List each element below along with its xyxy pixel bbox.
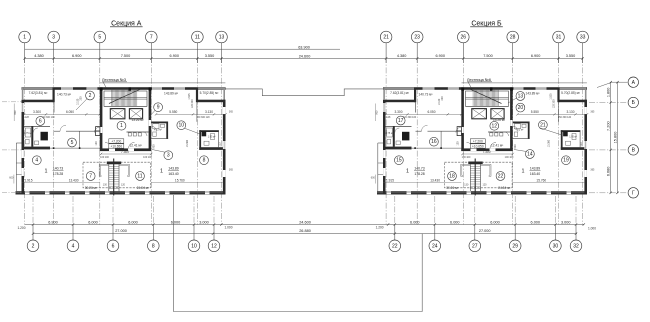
room circle 12 bbox=[490, 121, 499, 130]
grid bubble 22 bbox=[389, 240, 401, 252]
parapet step line between sections bbox=[226, 89, 384, 96]
svg-text:9: 9 bbox=[157, 105, 160, 111]
svg-text:3: 3 bbox=[167, 153, 170, 159]
grid bubble 31 bbox=[553, 31, 565, 43]
grid bubble 24 bbox=[429, 240, 441, 252]
svg-text:63.900: 63.900 bbox=[298, 45, 310, 49]
svg-text:6: 6 bbox=[39, 119, 42, 125]
svg-text:11: 11 bbox=[137, 174, 142, 180]
grid bubble 6 bbox=[107, 240, 119, 252]
room circles section A bbox=[32, 91, 208, 180]
svg-text:3.550: 3.550 bbox=[205, 54, 215, 58]
room circle 10 bbox=[177, 121, 186, 130]
room circle 8 bbox=[200, 156, 209, 165]
svg-text:18: 18 bbox=[449, 174, 455, 180]
svg-text:17: 17 bbox=[398, 118, 404, 124]
svg-text:21: 21 bbox=[540, 122, 546, 128]
svg-text:7: 7 bbox=[89, 174, 92, 180]
room circle 6 bbox=[36, 117, 45, 126]
svg-text:12: 12 bbox=[492, 123, 498, 129]
stair diagonal section B (mirrored) bbox=[471, 89, 502, 103]
svg-text:1.200: 1.200 bbox=[18, 226, 26, 230]
grid bubble 32 bbox=[570, 240, 582, 252]
room circles section B bbox=[395, 92, 571, 181]
grid bubble 28 bbox=[507, 31, 519, 43]
svg-text:19: 19 bbox=[563, 158, 569, 164]
svg-text:Лестница №6: Лестница №6 bbox=[467, 78, 491, 82]
svg-text:24.600: 24.600 bbox=[299, 55, 311, 59]
letter grid row lines bbox=[589, 103, 628, 193]
svg-text:8: 8 bbox=[203, 158, 206, 164]
svg-text:3: 3 bbox=[52, 35, 55, 41]
svg-text:1.200: 1.200 bbox=[376, 226, 384, 230]
svg-text:Секция А: Секция А bbox=[111, 20, 142, 27]
leader line circle 21 bbox=[540, 128, 563, 135]
room circle 21 bbox=[539, 120, 548, 129]
svg-text:1: 1 bbox=[23, 35, 26, 41]
svg-text:6.000: 6.000 bbox=[450, 221, 460, 225]
stair label section A bbox=[102, 78, 127, 88]
room circle 17 bbox=[396, 116, 405, 125]
svg-text:10: 10 bbox=[191, 244, 197, 250]
room circle 14 bbox=[526, 150, 535, 159]
svg-text:21: 21 bbox=[383, 35, 389, 41]
svg-text:1.000: 1.000 bbox=[225, 226, 233, 230]
svg-text:12: 12 bbox=[211, 244, 217, 250]
grid bubble 5 bbox=[94, 31, 106, 43]
svg-text:5: 5 bbox=[98, 35, 101, 41]
room circle 2 bbox=[86, 91, 95, 100]
vertical grid lines section B (dash-dot) bbox=[386, 57, 582, 225]
grid bubble Г bbox=[628, 188, 638, 198]
top dimension line row 2 bbox=[23, 54, 583, 60]
svg-text:10: 10 bbox=[179, 123, 185, 129]
grid bubble А bbox=[628, 77, 638, 87]
letter row extensions left margin bbox=[2, 102, 22, 193]
svg-text:6.000: 6.000 bbox=[171, 221, 181, 225]
room circle 11 bbox=[136, 172, 145, 181]
svg-text:27: 27 bbox=[472, 244, 478, 250]
room circle 18 bbox=[448, 172, 457, 181]
svg-text:3.000: 3.000 bbox=[561, 221, 571, 225]
svg-text:20: 20 bbox=[518, 105, 524, 111]
room circle 15 bbox=[395, 156, 404, 165]
svg-text:6.000: 6.000 bbox=[128, 221, 138, 225]
top dimension line 63.900 bbox=[25, 45, 340, 49]
room circle 4 bbox=[32, 156, 41, 165]
right margin vertical dim line 1 bbox=[606, 81, 612, 194]
room circle 3 bbox=[164, 151, 173, 160]
svg-text:Г: Г bbox=[632, 191, 635, 197]
svg-text:6.900: 6.900 bbox=[48, 221, 58, 225]
grid bubble 11 bbox=[192, 31, 204, 43]
svg-text:6.000: 6.000 bbox=[531, 221, 541, 225]
leader line circle 9 bbox=[149, 110, 155, 117]
svg-text:7.500: 7.500 bbox=[483, 54, 493, 58]
stair diagonal section A bbox=[109, 89, 140, 103]
svg-text:6.900: 6.900 bbox=[435, 54, 445, 58]
svg-text:4.380: 4.380 bbox=[34, 54, 44, 58]
grid bubble 29 bbox=[509, 240, 521, 252]
leader line circle 10 bbox=[185, 128, 201, 134]
svg-text:28: 28 bbox=[510, 35, 516, 41]
lower outline rectangle bbox=[174, 195, 423, 312]
room circle 20 bbox=[516, 103, 525, 112]
svg-text:13: 13 bbox=[219, 35, 225, 41]
room circle 9 bbox=[154, 103, 163, 112]
grid bubble 4 bbox=[67, 240, 79, 252]
svg-text:4: 4 bbox=[35, 158, 38, 164]
svg-text:15: 15 bbox=[396, 158, 402, 164]
svg-text:31: 31 bbox=[556, 35, 562, 41]
bottom grid lines section B bbox=[395, 196, 576, 225]
room circle 7 bbox=[86, 172, 95, 181]
grid bubble 1 bbox=[19, 31, 31, 43]
svg-text:7.500: 7.500 bbox=[121, 54, 131, 58]
svg-text:6.900: 6.900 bbox=[531, 54, 541, 58]
right margin vertical dim line 2 bbox=[613, 81, 618, 194]
stair label section B bbox=[467, 78, 492, 88]
svg-text:26.880: 26.880 bbox=[299, 229, 311, 233]
grid bubble 3 bbox=[48, 31, 60, 43]
room circle 22 bbox=[496, 172, 505, 181]
bottom bubble stubs bbox=[33, 225, 576, 241]
grid bubble В bbox=[628, 145, 638, 155]
svg-text:22: 22 bbox=[498, 174, 504, 180]
svg-text:6.900: 6.900 bbox=[170, 54, 180, 58]
grid bubble 26 bbox=[458, 31, 470, 43]
svg-text:26: 26 bbox=[461, 35, 467, 41]
grid bubble 21 bbox=[380, 31, 392, 43]
grid bubble 2 bbox=[27, 240, 39, 252]
svg-text:Секция Б: Секция Б bbox=[471, 20, 502, 27]
svg-text:27.000: 27.000 bbox=[479, 229, 491, 233]
grid bubble 7 bbox=[146, 31, 158, 43]
svg-text:1.800: 1.800 bbox=[606, 88, 610, 98]
svg-text:27.000: 27.000 bbox=[115, 229, 127, 233]
svg-text:4.380: 4.380 bbox=[397, 54, 407, 58]
grid bubble 12 bbox=[208, 240, 220, 252]
svg-text:32: 32 bbox=[573, 244, 579, 250]
svg-text:24: 24 bbox=[432, 244, 438, 250]
svg-text:5: 5 bbox=[71, 140, 74, 146]
room circle 5 bbox=[68, 138, 77, 147]
grid bubble 23 bbox=[411, 31, 423, 43]
room circle 16 bbox=[430, 137, 439, 146]
svg-text:1: 1 bbox=[120, 123, 123, 129]
svg-text:Лестница №3: Лестница №3 bbox=[102, 78, 126, 82]
svg-text:24.600: 24.600 bbox=[299, 221, 311, 225]
svg-text:14: 14 bbox=[527, 152, 533, 158]
section B floor plan (reuse) bbox=[371, 83, 595, 196]
svg-text:33: 33 bbox=[580, 35, 586, 41]
svg-text:3.550: 3.550 bbox=[566, 54, 576, 58]
bottom dimension row 1 bbox=[18, 221, 597, 231]
row A leader bbox=[597, 82, 628, 87]
room circle 19 bbox=[562, 156, 571, 165]
leader line circle 14 bbox=[514, 150, 527, 152]
svg-text:4: 4 bbox=[72, 244, 75, 250]
grid bubble 30 bbox=[550, 240, 562, 252]
top grid bubble stubs bbox=[25, 42, 583, 63]
grid bubble 13 bbox=[216, 31, 228, 43]
svg-text:15.800: 15.800 bbox=[613, 132, 617, 144]
svg-text:8: 8 bbox=[152, 244, 155, 250]
section A floor plan bbox=[9, 83, 233, 196]
svg-text:2: 2 bbox=[32, 244, 35, 250]
svg-text:30: 30 bbox=[553, 244, 559, 250]
svg-text:7.200: 7.200 bbox=[606, 121, 610, 131]
svg-text:23: 23 bbox=[414, 35, 420, 41]
svg-text:6.900: 6.900 bbox=[72, 54, 82, 58]
svg-text:6.000: 6.000 bbox=[88, 221, 98, 225]
svg-text:1.000: 1.000 bbox=[588, 226, 596, 230]
svg-text:6.680: 6.680 bbox=[606, 167, 610, 177]
leader line circle 3 bbox=[152, 150, 165, 153]
leader line circle 13 bbox=[508, 98, 517, 103]
svg-text:29: 29 bbox=[512, 244, 518, 250]
room circle 13 bbox=[516, 92, 525, 101]
svg-text:3.000: 3.000 bbox=[199, 221, 209, 225]
vertical grid lines section A (dash-dot) bbox=[25, 57, 222, 225]
title Секция Б bbox=[470, 20, 503, 27]
grid bubble 27 bbox=[469, 240, 481, 252]
grid bubble 10 bbox=[188, 240, 200, 252]
bottom dimension row 2 bbox=[32, 229, 577, 235]
svg-text:7: 7 bbox=[150, 35, 153, 41]
svg-text:16: 16 bbox=[431, 139, 437, 145]
svg-text:13: 13 bbox=[518, 94, 524, 100]
svg-text:22: 22 bbox=[392, 244, 398, 250]
grid bubble 8 bbox=[148, 240, 160, 252]
svg-text:6.000: 6.000 bbox=[490, 221, 500, 225]
svg-text:6: 6 bbox=[112, 244, 115, 250]
room circle 1 bbox=[117, 121, 126, 130]
leader line circle 2 bbox=[76, 99, 87, 110]
svg-text:6.000: 6.000 bbox=[410, 221, 420, 225]
title Секция А bbox=[110, 20, 143, 27]
svg-text:11: 11 bbox=[195, 35, 200, 41]
grid bubble Б bbox=[628, 97, 638, 107]
grid bubble 33 bbox=[577, 31, 589, 43]
svg-text:2: 2 bbox=[89, 93, 92, 99]
bottom grid lines section A bbox=[33, 196, 214, 225]
